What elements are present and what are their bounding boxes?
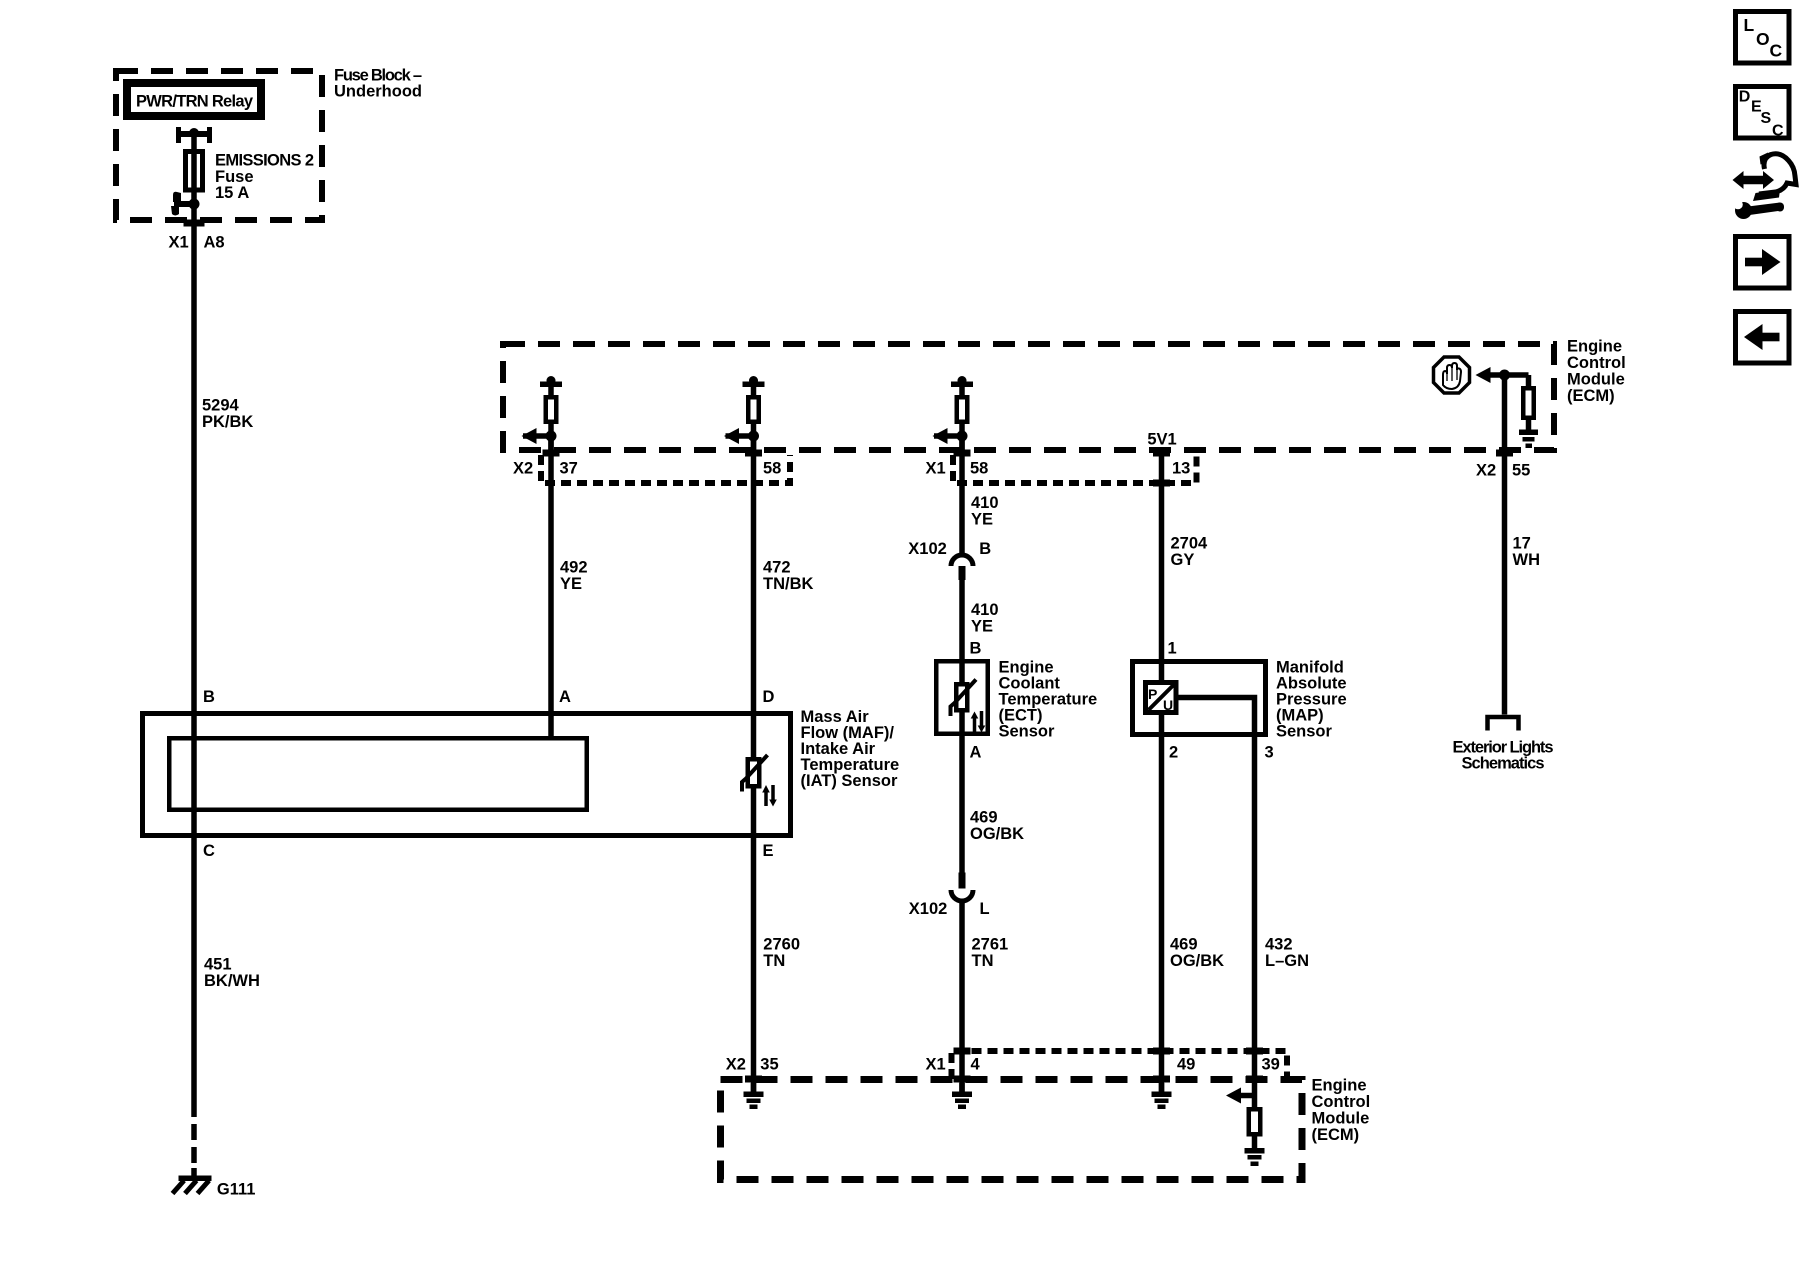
- svg-text:Schematics: Schematics: [1462, 755, 1545, 773]
- svg-text:PWR/TRN Relay: PWR/TRN Relay: [136, 93, 254, 111]
- wire label 2761 TN: [972, 936, 1009, 971]
- svg-text:Control: Control: [1312, 1093, 1371, 1111]
- ECM pull-up resistor at pin 37: [522, 376, 563, 453]
- CONNECTOR X102 upper (B): [951, 555, 973, 580]
- svg-text:O: O: [1756, 29, 1770, 49]
- tick connector X1 A8: [184, 220, 205, 227]
- MAP pin labels 1 2 3: [1168, 640, 1274, 762]
- svg-text:5294: 5294: [202, 397, 240, 415]
- pin labels X2 35 X1 4 49 39 bottom: [726, 1056, 1280, 1074]
- svg-text:L: L: [1744, 15, 1755, 35]
- ECM pull-up resistor at pin 58 X1: [933, 376, 974, 453]
- ECM bottom dashed box: [721, 1080, 1303, 1180]
- label Manifold Absolute Pressure (MAP) Sensor: [1276, 659, 1347, 741]
- svg-text:YE: YE: [560, 575, 582, 593]
- fuse clip top: [176, 127, 212, 143]
- ECT sensor box: [936, 661, 988, 734]
- ECM bottom dotted connector box X1: [952, 1051, 1288, 1079]
- MAP sensor box: [1133, 662, 1266, 735]
- ground symbol ECM pin 39: [1245, 1148, 1265, 1166]
- label Engine Control Module (ECM) top: [1567, 338, 1626, 406]
- svg-text:2: 2: [1169, 744, 1178, 762]
- MAF outer box: [143, 714, 791, 836]
- ECM internal arrow + resistor at pin 39: [1226, 1088, 1260, 1149]
- ground G111: [173, 1168, 212, 1194]
- svg-text:Underhood: Underhood: [334, 83, 422, 101]
- svg-text:TN/BK: TN/BK: [763, 575, 813, 593]
- svg-text:Engine: Engine: [1567, 338, 1622, 356]
- ECT pin labels B A: [970, 640, 982, 762]
- svg-text:X1: X1: [926, 460, 946, 478]
- fuse lower clip: [171, 192, 200, 216]
- svg-text:Engine: Engine: [1312, 1077, 1367, 1095]
- label EMISSIONS 2 Fuse 15 A: [215, 152, 314, 203]
- svg-text:35: 35: [760, 1056, 778, 1074]
- svg-text:1: 1: [1168, 640, 1177, 658]
- wire label 410 YE lower: [971, 601, 999, 636]
- svg-text:YE: YE: [971, 511, 993, 529]
- svg-text:C: C: [1770, 40, 1783, 60]
- label Mass Air Flow (MAF) / Intake Air Temperature (IAT) Sensor: [801, 708, 900, 790]
- svg-text:58: 58: [763, 460, 781, 478]
- label Engine Control Module (ECM) bottom: [1312, 1077, 1371, 1145]
- PWR/TRN Relay label box: [127, 83, 261, 116]
- svg-text:37: 37: [560, 460, 578, 478]
- LOC button: [1736, 12, 1790, 64]
- svg-text:A8: A8: [204, 234, 225, 252]
- svg-text:U: U: [1163, 697, 1173, 713]
- svg-text:15 A: 15 A: [215, 184, 249, 202]
- pin label X2 55: [1476, 462, 1530, 480]
- svg-text:X2: X2: [513, 460, 533, 478]
- svg-text:Module: Module: [1312, 1110, 1370, 1128]
- wire label 5294 PK/BK: [202, 397, 253, 432]
- wire label 410 YE upper: [971, 494, 999, 529]
- ground symbol ECM top right: [1519, 430, 1538, 449]
- svg-text:4: 4: [971, 1056, 981, 1074]
- svg-text:X1: X1: [169, 234, 189, 252]
- svg-text:S: S: [1761, 110, 1772, 127]
- connector label X102 B: [908, 540, 991, 558]
- svg-text:58: 58: [970, 460, 988, 478]
- DESC button: [1736, 87, 1790, 140]
- connector label X102 L: [909, 900, 990, 918]
- svg-text:Control: Control: [1567, 354, 1626, 372]
- svg-text:451: 451: [204, 956, 232, 974]
- svg-text:G111: G111: [217, 1181, 256, 1199]
- back arrow button: [1736, 312, 1790, 364]
- svg-text:55: 55: [1512, 462, 1530, 480]
- MAF pin labels B A D C E: [203, 688, 775, 860]
- svg-text:L–GN: L–GN: [1265, 952, 1309, 970]
- MAF inner box: [169, 738, 587, 810]
- wire label 2760 TN: [763, 936, 800, 971]
- fuse EMISSIONS 2 15A body: [186, 152, 203, 191]
- svg-text:P: P: [1148, 686, 1157, 702]
- svg-text:OG/BK: OG/BK: [970, 825, 1024, 843]
- ECM pull-up resistor at pin 58: [724, 376, 765, 453]
- svg-text:3: 3: [1265, 744, 1274, 762]
- ECM driver hand octagon icon: [1434, 357, 1470, 393]
- wire 432 L-GN MAP 3 to ECM 39: [1178, 698, 1255, 1108]
- svg-text:OG/BK: OG/BK: [1170, 952, 1224, 970]
- svg-text:X102: X102: [909, 900, 948, 918]
- svg-text:C: C: [203, 842, 215, 860]
- svg-text:(IAT) Sensor: (IAT) Sensor: [801, 772, 898, 790]
- svg-text:E: E: [763, 842, 774, 860]
- wire label 469 OG/BK (ECT): [970, 809, 1024, 844]
- svg-text:B: B: [203, 688, 215, 706]
- wire label 469 OG/BK (MAP): [1170, 936, 1224, 971]
- CONNECTOR X102 lower (L): [951, 873, 973, 902]
- svg-text:17: 17: [1513, 535, 1531, 553]
- label Fuse Block - Underhood: [334, 67, 422, 101]
- svg-text:D: D: [1739, 89, 1751, 106]
- wire 2704 GY and 469 OG/BK ECM 13 to MAP 1/2 to ECM 49: [1159, 453, 1165, 1092]
- svg-text:410: 410: [971, 494, 999, 512]
- wire 472 TN/BK and 2760 TN ECM 58 to MAF D/E to ECM 35: [751, 436, 757, 1092]
- svg-text:49: 49: [1177, 1056, 1195, 1074]
- schematic navigation icon (double arrow, loop arrow, wrench): [1733, 153, 1797, 220]
- svg-text:(ECM): (ECM): [1312, 1126, 1360, 1144]
- tick at wire 13 dotted crossing: [1153, 480, 1170, 487]
- wire label 432 L-GN: [1265, 936, 1309, 971]
- svg-text:BK/WH: BK/WH: [204, 972, 260, 990]
- off page connector to Exterior Lights: [1488, 717, 1519, 731]
- connector ticks at ECM bottom box: [745, 1048, 1263, 1083]
- svg-text:B: B: [970, 640, 982, 658]
- wire label 472 TN/BK: [763, 559, 813, 594]
- ECM top dashed box: [503, 344, 1554, 450]
- svg-text:2704: 2704: [1171, 535, 1209, 553]
- dotted connector box X2 (pins 37,58): [541, 455, 790, 483]
- label Engine Coolant Temperature (ECT) Sensor: [999, 659, 1098, 741]
- svg-text:492: 492: [560, 559, 588, 577]
- wire label 17 WH: [1513, 535, 1541, 570]
- label Exterior Lights Schematics: [1453, 739, 1554, 773]
- forward arrow button: [1736, 237, 1790, 289]
- svg-text:TN: TN: [763, 952, 785, 970]
- svg-text:WH: WH: [1513, 551, 1541, 569]
- pin labels X2 37 58 top: [513, 460, 781, 478]
- svg-text:13: 13: [1172, 460, 1190, 478]
- svg-text:D: D: [763, 688, 775, 706]
- svg-text:A: A: [559, 688, 571, 706]
- MAP P/U transducer symbol: [1146, 683, 1177, 714]
- svg-text:C: C: [1772, 123, 1784, 140]
- ECM internal resistor to ground (top right): [1523, 375, 1534, 430]
- wire label 2704 GY: [1171, 535, 1209, 570]
- pin labels X1 58 13 top: [926, 460, 1191, 478]
- dotted connector box X1 (pins 58,13): [953, 455, 1197, 483]
- svg-text:X102: X102: [908, 540, 947, 558]
- svg-text:432: 432: [1265, 936, 1293, 954]
- fuse block underhood dashed box: [116, 71, 322, 220]
- svg-text:B: B: [979, 540, 991, 558]
- svg-text:L: L: [980, 900, 990, 918]
- svg-text:410: 410: [971, 601, 999, 619]
- svg-text:X1: X1: [926, 1056, 946, 1074]
- svg-text:X2: X2: [1476, 462, 1496, 480]
- svg-text:Module: Module: [1567, 371, 1625, 389]
- ground symbol ECM pin 49: [1152, 1083, 1172, 1109]
- svg-text:2761: 2761: [972, 936, 1009, 954]
- IAT thermistor symbol: [742, 755, 777, 807]
- svg-text:A: A: [970, 744, 982, 762]
- ECT thermistor symbol: [951, 680, 986, 733]
- svg-text:469: 469: [1170, 936, 1198, 954]
- svg-text:EMISSIONS 2: EMISSIONS 2: [215, 152, 314, 170]
- svg-text:(ECM): (ECM): [1567, 387, 1615, 405]
- svg-text:39: 39: [1262, 1056, 1280, 1074]
- ground symbol ECM pin 35: [744, 1083, 764, 1109]
- pin label X1 A8: [169, 234, 225, 252]
- wire 17 WH ECM 55 to Exterior Lights: [1502, 375, 1508, 715]
- svg-text:PK/BK: PK/BK: [202, 413, 253, 431]
- svg-text:YE: YE: [971, 618, 993, 636]
- wire 492 YE ECM 37 to MAF pin A: [548, 436, 554, 737]
- svg-text:TN: TN: [972, 952, 994, 970]
- wire 5294 PK/BK fuse to MAF pin B to C to G111: [191, 131, 197, 1163]
- ground symbol ECM pin 4: [952, 1083, 972, 1109]
- ECM internal signal arrow to pin 55: [1476, 367, 1529, 383]
- svg-text:Sensor: Sensor: [999, 723, 1056, 741]
- wire label 451 BK/WH: [204, 956, 260, 991]
- svg-text:GY: GY: [1171, 551, 1195, 569]
- svg-text:472: 472: [763, 559, 791, 577]
- svg-text:X2: X2: [726, 1056, 746, 1074]
- svg-text:2760: 2760: [763, 936, 800, 954]
- wire label 492 YE: [560, 559, 588, 594]
- svg-text:Sensor: Sensor: [1276, 723, 1333, 741]
- svg-text:469: 469: [970, 809, 998, 827]
- svg-text:5V1: 5V1: [1147, 431, 1176, 449]
- connector ticks at ECM top box exit: [543, 450, 1514, 457]
- wire 410 YE and 469 OG/BK and 2761 TN ECM 58 to ECT to ECM 4: [959, 436, 965, 1092]
